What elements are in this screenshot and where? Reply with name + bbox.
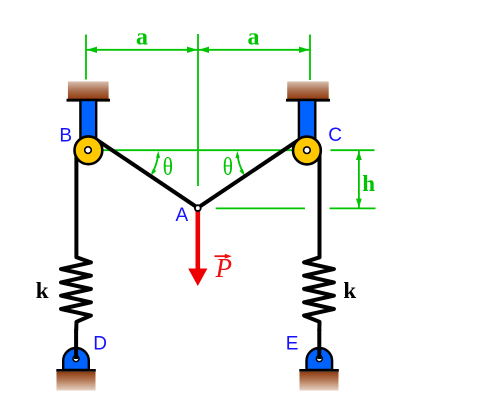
svg-text:C: C: [328, 125, 342, 146]
svg-text:θ: θ: [163, 154, 173, 181]
ground left: [56, 370, 96, 390]
svg-text:k: k: [36, 278, 49, 303]
pulley B: [75, 136, 103, 164]
anchor E (pin support): [307, 348, 333, 370]
fixed support left (wall block): [67, 82, 111, 101]
svg-text:h: h: [362, 171, 375, 196]
h dimension top extension line: [331, 149, 375, 151]
force arrow P (red): [188, 211, 207, 287]
theta arc left: [151, 151, 160, 176]
dimension extension line center (x=198): [197, 34, 199, 186]
svg-text:a: a: [136, 25, 148, 51]
wire rope B down to spring k left: [74, 149, 78, 258]
svg-text:P: P: [215, 253, 233, 283]
A-level horizontal reference line: [216, 207, 305, 209]
label P vector: [215, 253, 233, 283]
column left (blue bracket): [80, 100, 96, 152]
svg-text:B: B: [59, 125, 72, 146]
dimension arrowhead at left tip: [87, 47, 97, 53]
spring k left: [61, 257, 91, 330]
dimension line a+a (y=49.8): [86, 49, 310, 51]
svg-text:k: k: [343, 278, 356, 303]
h dimension bottom extension line: [330, 207, 376, 209]
theta arc right: [236, 151, 245, 176]
node A: [195, 205, 201, 211]
dimension extension line right (x=310): [309, 35, 311, 81]
spring k right: [304, 257, 334, 330]
wire rope B to A: [97, 140, 198, 208]
h dimension vertical line with arrows: [356, 151, 362, 208]
dimension arrowheads at center: [187, 47, 209, 53]
ground right: [299, 370, 339, 390]
svg-text:D: D: [93, 334, 107, 355]
svg-text:A: A: [175, 205, 188, 226]
anchor D (pin support): [63, 348, 89, 370]
wire rope C to A: [198, 140, 299, 208]
dimension extension line left (x=86): [85, 35, 87, 80]
wire rope C down to spring k right: [318, 149, 322, 258]
svg-text:θ: θ: [223, 154, 233, 181]
dimension arrowhead at right tip: [299, 47, 309, 53]
pulley C: [293, 137, 321, 165]
fixed support right (wall block): [286, 82, 330, 101]
pulley-level horizontal reference line: [88, 149, 307, 151]
column right (blue bracket): [299, 100, 315, 152]
svg-text:E: E: [286, 333, 299, 354]
svg-text:a: a: [248, 25, 260, 51]
